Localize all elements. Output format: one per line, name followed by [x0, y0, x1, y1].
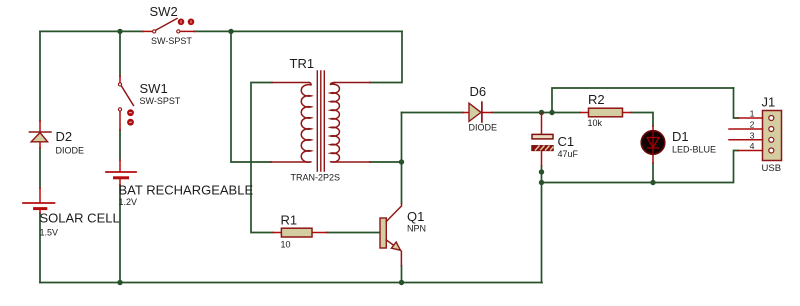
diode D6 [463, 102, 492, 122]
label C1 value [558, 149, 579, 159]
svg-text:D2: D2 [56, 129, 73, 144]
label J1 type USB [762, 163, 782, 174]
label SW1 [140, 81, 168, 96]
svg-text:1: 1 [750, 109, 755, 119]
svg-text:SW-SPST: SW-SPST [140, 96, 181, 106]
label battery voltage [119, 197, 138, 207]
svg-text:2: 2 [750, 120, 755, 130]
svg-text:SW2: SW2 [150, 4, 178, 19]
svg-text:TR1: TR1 [290, 56, 315, 71]
svg-text:SOLAR CELL: SOLAR CELL [40, 211, 120, 226]
label J1 pin 2 [750, 120, 755, 130]
wire Q1 emitter to rail [401, 266, 403, 283]
node D6 top branch [549, 110, 554, 115]
label J1 pin 3 [750, 130, 755, 140]
label D2 [56, 129, 73, 144]
resistor R1 [273, 228, 327, 237]
svg-text:1.2V: 1.2V [119, 197, 138, 207]
label TR1 [290, 56, 315, 71]
label D1 [672, 129, 689, 144]
label solar cell voltage [40, 228, 59, 238]
diode D2 [29, 121, 51, 148]
capacitor C1 [532, 113, 553, 167]
label TR1 type [291, 173, 341, 183]
label BAT RECHARGEABLE [119, 183, 254, 198]
wire C1 bottom vertical [541, 166, 543, 283]
transformer TR1 [271, 71, 370, 171]
node bottom rail battery branch [117, 280, 122, 285]
svg-text:R1: R1 [281, 213, 298, 228]
label R2 value [588, 118, 603, 128]
label R1 [281, 213, 298, 228]
svg-text:BAT RECHARGEABLE: BAT RECHARGEABLE [119, 183, 254, 198]
svg-text:LED-BLUE: LED-BLUE [672, 145, 716, 155]
svg-text:47uF: 47uF [558, 149, 579, 159]
wire R1 to Q1 base [327, 232, 381, 234]
node D6 C1 [539, 110, 544, 115]
label SOLAR CELL [40, 211, 120, 226]
label Q1 type [407, 224, 426, 234]
svg-text:J1: J1 [762, 95, 776, 110]
battery BAT RECHARGEABLE [106, 160, 136, 185]
svg-text:NPN: NPN [407, 224, 426, 234]
switch SW1 [118, 76, 133, 130]
node bottom rail emitter [399, 280, 404, 285]
svg-text:SW-SPST: SW-SPST [151, 36, 192, 46]
wire secondary-bottom node [370, 113, 402, 204]
svg-text:D6: D6 [470, 84, 487, 99]
wire node to top-right rail [552, 88, 734, 113]
wire D6 cathode to node [492, 112, 580, 114]
wire top rail right segment [194, 30, 402, 32]
connector J1 [729, 111, 782, 161]
wire secondary-top to top rail [370, 31, 402, 82]
transistor Q1 [380, 204, 402, 267]
svg-text:D1: D1 [672, 129, 689, 144]
battery SOLAR CELL [23, 188, 55, 213]
svg-text:DIODE: DIODE [469, 123, 498, 133]
label R1 value [281, 240, 291, 250]
wire top-right to J1 pin1 [734, 88, 739, 118]
svg-text:R2: R2 [588, 92, 605, 107]
wire top rail left segment [40, 30, 143, 32]
wire primary-bottom to rail [231, 31, 271, 162]
wire R2 to D1 [631, 113, 653, 127]
node C1 bottom pin [539, 169, 544, 174]
svg-text:Q1: Q1 [407, 209, 424, 224]
node D1 bottom rail [650, 180, 655, 185]
svg-text:10: 10 [281, 240, 291, 250]
svg-text:1.5V: 1.5V [40, 228, 59, 238]
label D1 type [672, 145, 716, 155]
label D6 type [469, 123, 498, 133]
wire D1 bottom [652, 163, 654, 183]
label SW1 type [140, 96, 181, 106]
wire D6 anode side [402, 112, 464, 114]
svg-text:SW1: SW1 [140, 81, 168, 96]
label J1 [762, 95, 776, 110]
svg-text:C1: C1 [558, 134, 575, 149]
svg-text:3: 3 [750, 130, 755, 140]
label SW2 [150, 4, 178, 19]
svg-text:USB: USB [762, 163, 782, 174]
node top rail battery branch [117, 29, 122, 34]
wire bottom rail [40, 282, 542, 284]
label J1 pin 4 [750, 141, 755, 151]
svg-text:4: 4 [750, 141, 755, 151]
label C1 [558, 134, 575, 149]
switch SW2 [143, 19, 194, 34]
wire bottom-right rail [542, 151, 739, 183]
node C1 bottom rail [539, 180, 544, 185]
label J1 pin 1 [750, 109, 755, 119]
svg-text:TRAN-2P2S: TRAN-2P2S [291, 173, 341, 183]
wire battery branch vertical [119, 31, 121, 282]
resistor R2 [580, 108, 631, 117]
label D6 [470, 84, 487, 99]
svg-text:10k: 10k [588, 118, 603, 128]
label R2 [588, 92, 605, 107]
label Q1 [407, 209, 424, 224]
wire primary-top to R1 [251, 83, 273, 233]
wire left rail vertical [39, 31, 41, 282]
svg-text:DIODE: DIODE [56, 146, 85, 156]
node top rail transformer branch [228, 29, 233, 34]
node secondary bottom collector [399, 159, 404, 164]
label D2 type [56, 146, 85, 156]
label SW2 type [151, 36, 192, 46]
LED D1 [641, 126, 665, 163]
